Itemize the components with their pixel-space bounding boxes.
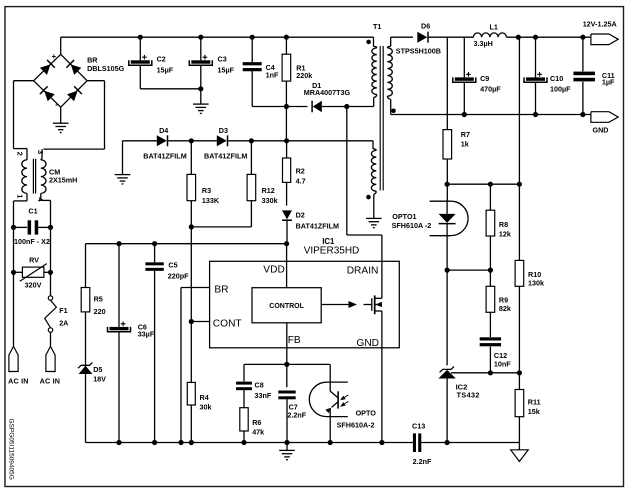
svg-text:C3: C3 (218, 55, 227, 64)
svg-text:2: 2 (16, 152, 25, 156)
svg-text:SFH610A-2: SFH610A-2 (337, 420, 375, 429)
svg-text:R5: R5 (94, 295, 103, 304)
svg-text:SFH610A -2: SFH610A -2 (392, 221, 432, 230)
svg-text:DBLS105G: DBLS105G (87, 64, 125, 73)
svg-text:VIPER35HD: VIPER35HD (304, 246, 360, 257)
svg-text:1nF: 1nF (266, 70, 279, 79)
svg-text:D2: D2 (296, 211, 305, 220)
svg-text:MRA4007T3G: MRA4007T3G (304, 88, 351, 97)
svg-text:47k: 47k (252, 428, 264, 437)
svg-text:33µF: 33µF (138, 329, 155, 338)
svg-text:33nF: 33nF (255, 391, 272, 400)
svg-text:FB: FB (288, 335, 301, 346)
svg-text:R3: R3 (202, 186, 211, 195)
svg-text:TS432: TS432 (457, 390, 480, 399)
svg-text:15µF: 15µF (157, 66, 174, 75)
svg-text:C5: C5 (168, 261, 177, 270)
svg-text:470µF: 470µF (480, 84, 501, 93)
svg-text:18V: 18V (93, 374, 106, 383)
svg-text:82k: 82k (499, 304, 511, 313)
svg-text:100nF - X2: 100nF - X2 (14, 237, 50, 246)
svg-text:100µF: 100µF (550, 84, 571, 93)
svg-text:1µF: 1µF (602, 78, 615, 87)
svg-text:C1: C1 (28, 207, 37, 216)
svg-text:3: 3 (36, 150, 45, 154)
svg-text:GND: GND (593, 125, 609, 134)
svg-text:STPS5H100B: STPS5H100B (396, 46, 441, 55)
svg-text:3.3µH: 3.3µH (474, 39, 493, 48)
svg-text:T1: T1 (373, 22, 381, 31)
svg-text:30k: 30k (200, 402, 212, 411)
svg-text:D4: D4 (159, 126, 168, 135)
svg-text:2X15mH: 2X15mH (49, 176, 77, 185)
svg-text:R7: R7 (461, 130, 470, 139)
svg-text:C8: C8 (255, 380, 264, 389)
svg-text:RV: RV (29, 256, 39, 265)
svg-text:DRAIN: DRAIN (347, 265, 379, 276)
svg-text:R4: R4 (200, 393, 209, 402)
svg-text:4.7: 4.7 (296, 176, 306, 185)
svg-text:R8: R8 (499, 220, 508, 229)
svg-text:D6: D6 (421, 22, 430, 31)
svg-text:BAT41ZFILM: BAT41ZFILM (204, 151, 247, 160)
svg-text:C2: C2 (157, 55, 166, 64)
svg-text:AC IN: AC IN (8, 377, 29, 386)
svg-text:R6: R6 (252, 418, 261, 427)
svg-text:D5: D5 (93, 365, 102, 374)
svg-text:12V-1.25A: 12V-1.25A (583, 20, 617, 29)
svg-text:220: 220 (94, 307, 106, 316)
svg-text:-: - (55, 100, 58, 109)
svg-text:R11: R11 (528, 397, 541, 406)
svg-text:10nF: 10nF (494, 360, 511, 369)
svg-text:C13: C13 (412, 422, 425, 431)
svg-text:D3: D3 (219, 126, 228, 135)
svg-text:BR: BR (214, 284, 228, 295)
svg-text:2A: 2A (59, 319, 68, 328)
svg-text:220k: 220k (296, 71, 312, 80)
svg-text:R12: R12 (262, 186, 275, 195)
svg-text:220pF: 220pF (168, 271, 189, 280)
svg-text:R2: R2 (296, 167, 305, 176)
svg-text:BAT41ZFILM: BAT41ZFILM (296, 222, 339, 231)
svg-text:VDD: VDD (263, 265, 285, 276)
svg-text:+: + (52, 52, 57, 61)
svg-text:330k: 330k (262, 196, 278, 205)
svg-text:133K: 133K (202, 196, 220, 205)
svg-text:GND: GND (356, 338, 379, 349)
svg-text:R9: R9 (499, 296, 508, 305)
svg-text:320V: 320V (25, 281, 42, 290)
svg-text:C10: C10 (550, 74, 563, 83)
svg-text:1k: 1k (461, 140, 469, 149)
svg-text:2.2nF: 2.2nF (413, 457, 432, 466)
svg-text:CONTROL: CONTROL (269, 303, 304, 310)
svg-text:15µF: 15µF (218, 66, 235, 75)
svg-text:CONT: CONT (213, 319, 242, 330)
svg-text:C9: C9 (480, 74, 489, 83)
svg-text:GSPG05I11509405G: GSPG05I11509405G (7, 419, 14, 480)
svg-text:2.2nF: 2.2nF (287, 410, 306, 419)
svg-text:130k: 130k (528, 279, 544, 288)
svg-text:15k: 15k (528, 407, 540, 416)
svg-text:1: 1 (16, 194, 25, 198)
svg-text:AC IN: AC IN (40, 377, 61, 386)
svg-text:12k: 12k (499, 230, 511, 239)
svg-text:F1: F1 (59, 306, 67, 315)
svg-text:BAT41ZFILM: BAT41ZFILM (143, 151, 186, 160)
svg-text:OPTO: OPTO (356, 408, 377, 417)
svg-text:L1: L1 (490, 23, 498, 32)
